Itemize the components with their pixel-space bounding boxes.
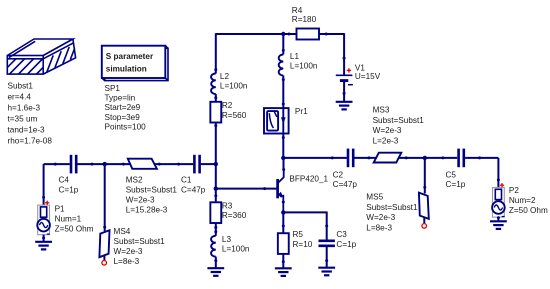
- port P2: [493, 188, 505, 218]
- inductor L3: [211, 236, 216, 257]
- wire top rail corner to V1: [343, 33, 345, 75]
- inductor L1: [279, 55, 284, 76]
- wire base: [216, 188, 277, 190]
- ground V1: [336, 102, 353, 110]
- wire MS4 stub: [104, 164, 106, 231]
- microstrip open stub MS4: [99, 230, 109, 257]
- open pin MS5: [422, 224, 427, 229]
- wire output corner down to P2: [497, 158, 499, 188]
- wire MS4 to open pin: [103, 256, 105, 261]
- wire MS3 to C5: [399, 157, 458, 159]
- ground C3: [318, 268, 335, 276]
- wire C5 to P2 corner: [465, 157, 498, 159]
- junction top rail / L1 branch: [281, 32, 285, 36]
- wire C3 to ground: [326, 247, 328, 268]
- ground R5: [275, 268, 292, 276]
- junction input node on bias branch: [214, 162, 218, 166]
- wire collector node to transistor: [283, 158, 285, 170]
- wire emitter row corner to C3: [326, 212, 328, 240]
- microstrip open stub MS5: [419, 193, 429, 219]
- resistor R2: [210, 102, 221, 123]
- wire top rail: [216, 33, 344, 35]
- wire C4 to MS2: [78, 163, 131, 165]
- svg-text:simulation: simulation: [106, 64, 147, 73]
- wire emitter row: [283, 211, 326, 213]
- ground L3: [207, 268, 224, 276]
- capacitor C4: [71, 155, 76, 174]
- junction collector node: [281, 156, 285, 160]
- capacitor C2: [348, 149, 353, 168]
- wire R2 down to input node: [215, 123, 217, 165]
- wire input corner down to P1: [43, 164, 45, 205]
- wire C2 to MS3: [355, 157, 380, 159]
- wire P1 corner to C4: [44, 163, 70, 165]
- capacitor C1: [194, 155, 199, 174]
- svg-text:Pr1: Pr1: [295, 107, 308, 116]
- wire L1 to Pr1: [282, 76, 284, 109]
- resistor R5: [278, 233, 289, 254]
- junction emitter node: [281, 210, 285, 214]
- port P1: [38, 205, 50, 235]
- svg-text:BFP420_1: BFP420_1: [289, 174, 328, 183]
- wire R3 to L3: [215, 223, 217, 236]
- S parameter simulation box SP1: [102, 46, 168, 81]
- ground P1: [35, 242, 52, 250]
- wire top-left corner down to L2: [215, 33, 217, 73]
- wire V1 to ground: [343, 82, 345, 102]
- wire C1 to bias node: [201, 163, 216, 165]
- wire MS5 stub: [424, 158, 426, 194]
- current probe Pr1: [264, 108, 289, 133]
- junction base node: [214, 186, 218, 190]
- open pin MS4: [102, 261, 107, 266]
- wire collector node to C2: [283, 157, 347, 159]
- capacitor C3: [319, 241, 335, 246]
- microstrip line MS3: [374, 153, 402, 163]
- resistor R3: [210, 202, 221, 223]
- capacitor C5: [459, 149, 464, 168]
- wire top rail to L1: [282, 34, 284, 55]
- svg-text:S parameter: S parameter: [106, 52, 154, 61]
- wire MS5 to open pin: [423, 217, 425, 223]
- wire P2 to ground: [497, 217, 499, 221]
- wire emitter to R5: [282, 212, 284, 233]
- wire Pr1 to collector node: [282, 134, 284, 158]
- ground P2: [490, 221, 507, 229]
- wire MS2 to C1: [154, 163, 193, 165]
- wire R5 to ground: [282, 254, 284, 268]
- substrate Subst1 symbol: [7, 39, 75, 74]
- transistor Q1 BFP420_1: [278, 170, 284, 213]
- wire P1 to ground: [43, 235, 45, 242]
- wire L3 to ground: [215, 257, 217, 269]
- junction output row / MS5 stub: [423, 156, 427, 160]
- resistor R4: [297, 29, 320, 40]
- junction input row / MS4 stub: [103, 162, 107, 166]
- wire input node to base node / R3: [215, 164, 217, 202]
- DC voltage source V1: [336, 74, 353, 76]
- wire L2 to R2: [215, 94, 217, 102]
- inductor L2: [211, 73, 216, 94]
- microstrip line MS2: [128, 159, 157, 169]
